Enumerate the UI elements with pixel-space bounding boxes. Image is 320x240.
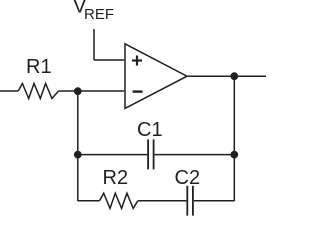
node junction dot at R1 / inverting input (74, 87, 82, 95)
node junction dot at C1 rail left (74, 151, 82, 159)
op-amp plus input symbol (132, 56, 142, 66)
wire R2 to C2 (138, 200, 187, 202)
svg-text:C1: C1 (137, 119, 163, 141)
svg-text:R1: R1 (26, 56, 52, 78)
svg-text:REF: REF (84, 6, 114, 23)
wire C2 to corner (194, 200, 235, 202)
wire feedback vertical right (233, 76, 235, 201)
wire R1 to inverting input (59, 90, 125, 92)
wire input left (0, 90, 18, 92)
wire feedback vertical left (77, 91, 79, 201)
wire output (187, 75, 266, 77)
wire VREF to non-inverting input (94, 59, 124, 61)
svg-text:R2: R2 (103, 167, 129, 189)
wire bottom rail left (78, 200, 100, 202)
capacitor C2 plates (187, 186, 193, 216)
op-amp U1 triangle (125, 44, 187, 109)
svg-text:C2: C2 (175, 167, 201, 189)
node junction dot at output (230, 72, 238, 80)
wire C1 rail right (155, 154, 235, 156)
resistor R1 (18, 84, 58, 99)
wire C1 rail left (78, 154, 147, 156)
node junction dot at C1 rail right (230, 151, 238, 159)
capacitor C1 plates (148, 139, 154, 169)
resistor R2 (100, 193, 138, 208)
op-amp minus input symbol (133, 90, 143, 92)
wire VREF vertical (93, 29, 95, 60)
